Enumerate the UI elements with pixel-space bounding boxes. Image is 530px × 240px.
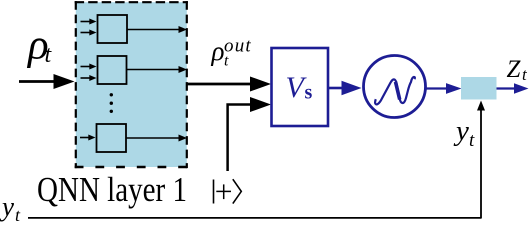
wire y_t feedback arrow up: [477, 101, 485, 219]
svg-text:y: y: [453, 115, 469, 147]
svg-text:QNN layer 1: QNN layer 1: [37, 170, 187, 209]
svg-text:s: s: [305, 82, 313, 104]
unitary block U2: [98, 56, 127, 84]
wire blue arrow channel N to measurement: [426, 83, 462, 94]
label Z_t: [507, 56, 529, 84]
wire elbow arrow from ket-plus to Vs: [228, 97, 271, 171]
svg-text:t: t: [15, 205, 21, 224]
label script N: [375, 77, 415, 104]
svg-text:t: t: [469, 130, 475, 151]
label ket plus: [214, 179, 242, 203]
wire blue arrow Vs to channel N: [329, 81, 362, 95]
label rho_t^out: [211, 36, 252, 70]
wire output arrow U2: [127, 66, 188, 73]
svg-text:t: t: [522, 65, 528, 84]
label V_s: [286, 71, 313, 104]
wire blue output arrow Z_t: [497, 83, 529, 93]
svg-text:t: t: [224, 53, 229, 70]
wire input arrow U2 pin a: [81, 64, 97, 70]
label y_t bottom left: [0, 192, 21, 226]
wire output arrow U1: [127, 26, 187, 33]
label y_t right: [453, 115, 475, 151]
unitary Vs box: [272, 48, 329, 126]
measurement square: [461, 77, 497, 100]
label rho_t: [26, 22, 53, 69]
QNN layer 1 dashed box: [75, 1, 188, 168]
channel N circle: [364, 56, 426, 118]
svg-text:y: y: [0, 192, 14, 222]
unitary block U3: [97, 124, 127, 152]
wire output arrow U3: [126, 135, 187, 142]
wire input arrow U3: [80, 135, 96, 141]
svg-text:Z: Z: [507, 56, 522, 83]
wire main input arrow: [19, 74, 75, 89]
ellipsis dots: [110, 93, 113, 113]
unitary block U1: [98, 15, 128, 43]
wire arrow QNN to Vs: [187, 77, 271, 92]
wire input arrow U1 pin a: [81, 19, 97, 25]
svg-text:t: t: [45, 42, 53, 68]
svg-text:ρ: ρ: [211, 36, 225, 66]
wire bottom feedback line: [28, 217, 481, 219]
wire input arrow U1 pin b: [81, 30, 97, 36]
wire input arrow U2 pin b: [81, 75, 97, 81]
